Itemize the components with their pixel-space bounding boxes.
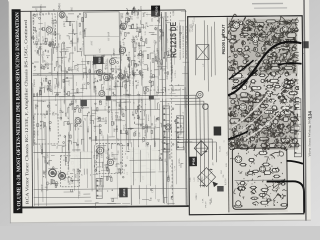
svg-text:134: 134 (307, 111, 312, 119)
svg-text:View from Wiring Side: View from Wiring Side (307, 116, 311, 157)
svg-text:2.2MEG: 2.2MEG (58, 3, 61, 12)
svg-text:.005: .005 (70, 7, 73, 12)
svg-text:33K: 33K (133, 6, 136, 11)
